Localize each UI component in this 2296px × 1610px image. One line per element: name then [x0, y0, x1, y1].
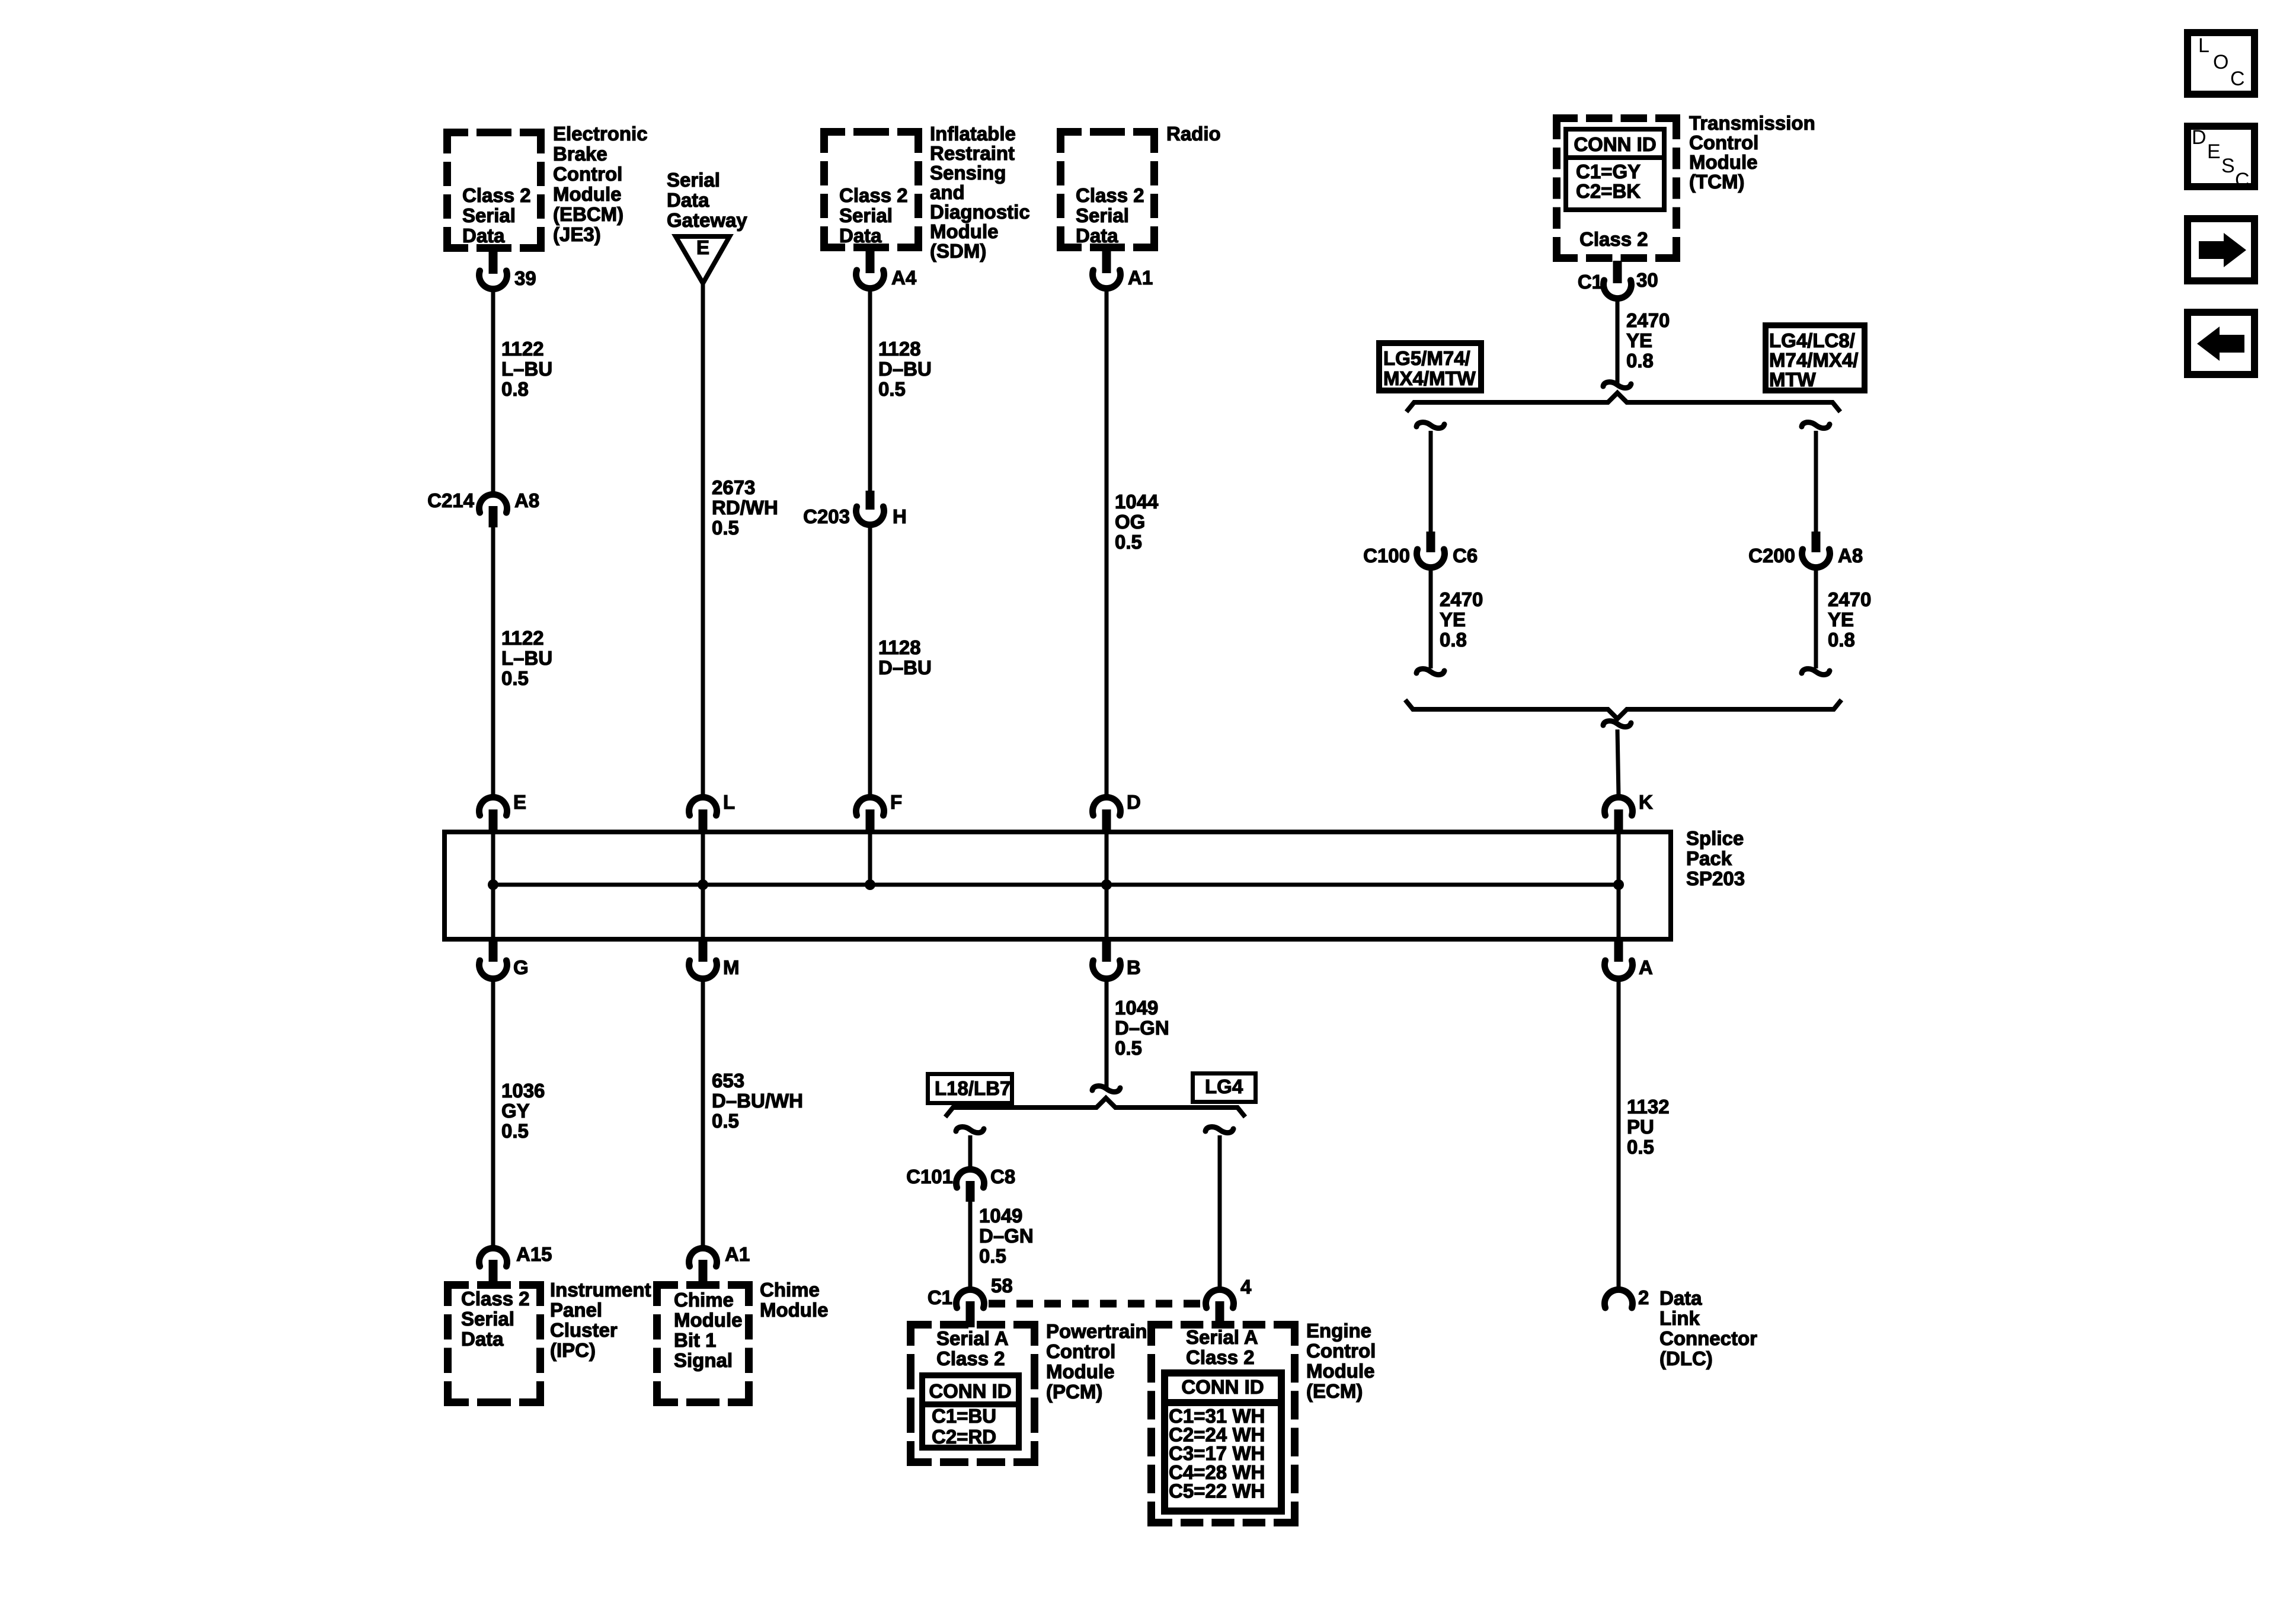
wire 2470 YE 0.8 from TCM C1 30 [1603, 299, 1631, 388]
svg-text:Serial: Serial [1076, 204, 1129, 226]
svg-text:C6: C6 [1453, 545, 1478, 566]
svg-text:RD/WH: RD/WH [712, 497, 778, 518]
svg-text:39: 39 [514, 267, 536, 289]
pin 2 of DLC [1604, 1286, 1649, 1308]
svg-text:Signal: Signal [674, 1349, 733, 1371]
svg-text:(ECM): (ECM) [1306, 1380, 1363, 1402]
svg-text:M74/MX4/: M74/MX4/ [1769, 349, 1858, 371]
svg-text:C1=GY: C1=GY [1576, 161, 1641, 183]
svg-text:Electronic: Electronic [553, 123, 648, 145]
splice connector B [1093, 885, 1141, 979]
label wire 1044 OG 0.5 [1115, 491, 1159, 553]
svg-text:0.5: 0.5 [878, 378, 906, 400]
svg-text:Module: Module [553, 183, 621, 205]
module Radio dashed box [1057, 128, 1158, 251]
svg-text:Class 2: Class 2 [936, 1347, 1005, 1369]
svg-text:0.5: 0.5 [1115, 1037, 1142, 1059]
splice connector K [1604, 791, 1653, 885]
option box LG4/LC8/M74/MX4/MTW [1766, 325, 1865, 391]
svg-text:0.5: 0.5 [1627, 1136, 1654, 1158]
svg-text:1049: 1049 [979, 1205, 1022, 1227]
svg-text:653: 653 [712, 1070, 744, 1092]
svg-text:0.5: 0.5 [1115, 531, 1142, 553]
svg-text:D–GN: D–GN [1115, 1017, 1169, 1039]
svg-text:Chime: Chime [674, 1289, 734, 1311]
label Chime Module [760, 1279, 828, 1321]
svg-text:YE: YE [1626, 329, 1652, 351]
svg-text:Class 2: Class 2 [1579, 228, 1648, 250]
svg-text:2: 2 [1638, 1286, 1649, 1308]
connector C203 pin H [803, 491, 907, 527]
svg-text:Cluster: Cluster [550, 1319, 618, 1341]
svg-text:1128: 1128 [878, 636, 921, 658]
svg-text:Class 2: Class 2 [461, 1288, 530, 1310]
svg-text:and: and [930, 181, 965, 203]
svg-text:L–BU: L–BU [501, 647, 552, 669]
label Engine Control Module (ECM) [1306, 1320, 1376, 1402]
label Electronic Brake Control Module (EBCM) (JE3) [553, 123, 648, 245]
wire 1049 D-GN to C101 [956, 1127, 984, 1170]
svg-text:C1=BU: C1=BU [932, 1405, 996, 1427]
svg-text:S: S [2221, 155, 2235, 177]
svg-text:Sensing: Sensing [930, 162, 1006, 184]
svg-text:Serial: Serial [461, 1308, 514, 1330]
svg-text:Serial A: Serial A [1186, 1326, 1258, 1348]
wire 1036 GY 0.5 from splice G to IPC [491, 980, 495, 1248]
svg-text:C: C [2235, 169, 2250, 191]
svg-text:A8: A8 [514, 489, 539, 511]
svg-text:C214: C214 [427, 489, 475, 511]
module ECM (Engine Control Module) dashed box [1147, 1321, 1299, 1526]
svg-text:Control: Control [1046, 1340, 1115, 1362]
label wire 1122 L-BU 0.8 [501, 338, 552, 400]
pin A1 of Radio [1093, 250, 1153, 289]
svg-text:Splice: Splice [1686, 827, 1744, 849]
svg-text:4: 4 [1240, 1276, 1252, 1298]
svg-text:Module: Module [1046, 1361, 1114, 1382]
svg-text:K: K [1639, 791, 1653, 813]
svg-text:OG: OG [1115, 511, 1145, 533]
svg-text:1122: 1122 [501, 338, 544, 360]
splice bus wire [493, 883, 1619, 887]
svg-text:0.5: 0.5 [712, 1110, 739, 1132]
svg-text:E: E [696, 236, 709, 258]
junction node D [1101, 879, 1112, 890]
splice connector F [856, 791, 903, 885]
connector C214 pin A8 [427, 489, 539, 527]
svg-text:C2=RD: C2=RD [932, 1426, 996, 1448]
svg-text:LG4: LG4 [1205, 1076, 1243, 1097]
svg-text:Link: Link [1659, 1307, 1700, 1329]
svg-text:LG4/LC8/: LG4/LC8/ [1769, 329, 1855, 351]
option box LG5/M74/MX4/MTW [1379, 343, 1481, 391]
svg-text:MX4/MTW: MX4/MTW [1383, 367, 1476, 389]
svg-text:CONN ID: CONN ID [929, 1380, 1011, 1402]
svg-text:A8: A8 [1838, 545, 1863, 566]
svg-text:Restraint: Restraint [930, 142, 1015, 164]
svg-text:(JE3): (JE3) [553, 223, 601, 245]
svg-text:Bit 1: Bit 1 [674, 1329, 717, 1351]
svg-text:Transmission: Transmission [1689, 112, 1815, 134]
label Splice Pack SP203 [1686, 827, 1745, 889]
svg-text:0.5: 0.5 [501, 1120, 529, 1142]
svg-text:C1: C1 [928, 1286, 952, 1308]
icon box arrow left [2188, 312, 2255, 375]
splice connector L [689, 791, 735, 885]
wire 653 D-BU/WH 0.5 from splice M to chime module [701, 980, 705, 1248]
module PCM (Powertrain Control Module) dashed box [907, 1321, 1038, 1466]
svg-text:Module: Module [930, 220, 998, 242]
svg-text:2470: 2470 [1440, 588, 1483, 610]
svg-text:(PCM): (PCM) [1046, 1381, 1102, 1403]
engine option brace bottom [1405, 700, 1841, 719]
ECM CONN ID table [1161, 1373, 1285, 1511]
pin A15 of IPC [479, 1243, 552, 1288]
label wire 1128 D-BU 0.5 [878, 338, 932, 400]
svg-text:CONN ID: CONN ID [1574, 133, 1656, 155]
wire 2470 YE 0.8 left branch to C100 [1416, 422, 1444, 533]
svg-text:Control: Control [553, 163, 622, 185]
module TCM (Transmission Control Module) dashed box [1553, 114, 1680, 262]
wire 1128 D-BU 0.5 from SDM pin A4 to C203 [868, 289, 872, 492]
svg-text:Pack: Pack [1686, 847, 1732, 869]
svg-text:Radio: Radio [1166, 123, 1221, 145]
label Instrument Panel Cluster (IPC) [550, 1279, 651, 1361]
svg-text:(EBCM): (EBCM) [553, 203, 623, 225]
svg-text:H: H [893, 505, 907, 527]
svg-text:0.5: 0.5 [712, 517, 739, 539]
label wire 2470 YE 0.8 left branch [1440, 588, 1483, 651]
svg-text:1049: 1049 [1115, 997, 1158, 1019]
svg-text:Data: Data [461, 1328, 504, 1350]
label Class 2 at TCM [1579, 228, 1648, 250]
svg-text:D–BU: D–BU [878, 358, 932, 380]
svg-text:Class 2: Class 2 [839, 184, 908, 206]
connector C100 pin C6 [1363, 532, 1478, 568]
splice pack SP203 box [445, 832, 1671, 939]
svg-text:MTW: MTW [1769, 369, 1817, 391]
svg-text:E: E [513, 791, 526, 813]
svg-text:Data: Data [839, 225, 882, 247]
splice connector E [479, 791, 527, 885]
module IPC (Instrument Panel Cluster) dashed box [444, 1281, 544, 1406]
svg-text:0.8: 0.8 [1440, 629, 1467, 651]
svg-text:1044: 1044 [1115, 491, 1159, 513]
label Radio [1166, 123, 1221, 145]
module SDM (Inflatable Restraint Sensing and Diagnostic Module) dashed box [820, 128, 922, 251]
svg-text:Inflatable: Inflatable [930, 123, 1016, 145]
svg-text:C101: C101 [906, 1166, 953, 1188]
label Serial Data Gateway [667, 169, 747, 231]
svg-text:PU: PU [1627, 1116, 1654, 1138]
svg-text:0.8: 0.8 [1626, 350, 1654, 372]
svg-text:Powertrain: Powertrain [1046, 1320, 1147, 1342]
svg-text:0.5: 0.5 [501, 667, 529, 689]
svg-text:2470: 2470 [1626, 309, 1670, 331]
svg-text:Gateway: Gateway [667, 209, 747, 231]
svg-text:Serial: Serial [462, 204, 516, 226]
junction node F [865, 879, 875, 890]
gateway triangle E [676, 236, 730, 283]
label Powertrain Control Module (PCM) [1046, 1320, 1147, 1403]
pin A1 of chime module [689, 1243, 750, 1288]
svg-text:E: E [2207, 140, 2221, 163]
svg-text:0.8: 0.8 [501, 378, 529, 400]
svg-text:Class 2: Class 2 [1076, 184, 1144, 206]
svg-text:C203: C203 [803, 505, 850, 527]
connector C1 58 of PCM [928, 1275, 1013, 1327]
svg-text:C8: C8 [990, 1166, 1015, 1188]
svg-text:Engine: Engine [1306, 1320, 1371, 1342]
splice connector G [479, 885, 529, 979]
svg-text:Instrument: Instrument [550, 1279, 651, 1301]
wire from LG4 brace to ECM pin 4 [1205, 1127, 1233, 1291]
svg-text:LG5/M74/: LG5/M74/ [1383, 347, 1470, 369]
svg-text:L–BU: L–BU [501, 358, 552, 380]
wire 1122 L-BU 0.8 from EBCM pin 39 to C214 [491, 289, 495, 495]
wire 1049 D-GN 0.5 from C101 to PCM C1 [968, 1202, 973, 1291]
svg-text:CONN ID: CONN ID [1181, 1376, 1264, 1398]
svg-text:C2=BK: C2=BK [1576, 180, 1641, 202]
option box L18/LB7 [928, 1074, 1012, 1103]
wire below C200 [1802, 568, 1830, 675]
label wire 1132 PU 0.5 [1627, 1096, 1670, 1158]
svg-text:D–BU/WH: D–BU/WH [712, 1090, 803, 1112]
TCM CONN ID table [1563, 129, 1667, 210]
svg-text:Chime: Chime [760, 1279, 820, 1301]
PCM CONN ID table [919, 1375, 1022, 1448]
svg-text:Module: Module [1689, 151, 1757, 173]
svg-text:Panel: Panel [550, 1299, 602, 1321]
svg-text:Brake: Brake [553, 143, 607, 165]
svg-text:SP203: SP203 [1686, 868, 1745, 889]
svg-text:0.5: 0.5 [979, 1245, 1006, 1267]
svg-text:Class 2: Class 2 [1186, 1346, 1255, 1368]
wire 1044 OG 0.5 from radio pin A1 to splice D [1105, 289, 1109, 796]
svg-text:(IPC): (IPC) [550, 1339, 596, 1361]
svg-text:D: D [1127, 791, 1141, 813]
svg-text:D: D [2192, 126, 2207, 149]
wire 2470 YE 0.8 right branch to C200 [1802, 422, 1830, 533]
svg-text:YE: YE [1828, 609, 1854, 630]
svg-text:O: O [2213, 51, 2228, 73]
label Data Link Connector (DLC) [1659, 1287, 1757, 1369]
svg-text:58: 58 [991, 1275, 1013, 1297]
label wire 1049 D-GN 0.5 [1115, 997, 1169, 1059]
svg-text:GY: GY [501, 1100, 530, 1122]
svg-text:Serial: Serial [667, 169, 720, 191]
splice connector D [1093, 791, 1141, 885]
svg-text:(DLC): (DLC) [1659, 1347, 1713, 1369]
svg-text:L18/LB7: L18/LB7 [935, 1077, 1011, 1099]
icon box LOC [2188, 33, 2255, 94]
svg-text:C100: C100 [1363, 545, 1410, 566]
wire 1128 D-BU from C203 to splice F [868, 525, 872, 796]
svg-text:A1: A1 [1128, 267, 1153, 289]
svg-text:1132: 1132 [1627, 1096, 1670, 1118]
icon box DESC [2188, 126, 2255, 191]
label wire 653 D-BU/WH 0.5 [712, 1070, 803, 1132]
svg-text:1036: 1036 [501, 1080, 545, 1102]
svg-text:1122: 1122 [501, 627, 544, 649]
svg-text:A: A [1639, 956, 1653, 978]
label wire 2470 YE 0.8 at TCM [1626, 309, 1670, 372]
svg-text:A15: A15 [516, 1243, 552, 1265]
svg-text:Module: Module [760, 1299, 828, 1321]
svg-text:C: C [2230, 68, 2245, 90]
svg-text:G: G [513, 956, 529, 978]
svg-text:D–BU: D–BU [878, 657, 932, 678]
icon box arrow right [2188, 219, 2255, 281]
svg-text:C200: C200 [1748, 545, 1795, 566]
svg-text:2470: 2470 [1828, 588, 1871, 610]
wire below C100 [1416, 568, 1444, 675]
label wire 1122 L-BU 0.5 [501, 627, 552, 689]
svg-text:(SDM): (SDM) [930, 240, 986, 262]
svg-text:1128: 1128 [878, 338, 921, 360]
svg-text:Data: Data [667, 189, 709, 211]
wire 1132 PU 0.5 from splice A to DLC [1617, 980, 1621, 1291]
svg-text:Data: Data [462, 225, 505, 247]
splice connector M [689, 885, 739, 979]
svg-text:L: L [723, 791, 735, 813]
svg-text:A4: A4 [891, 267, 917, 289]
label wire 1049 D-GN 0.5 lower [979, 1205, 1034, 1267]
junction node K [1613, 879, 1624, 890]
label wire 2470 YE 0.8 right branch [1828, 588, 1871, 651]
dashed wire C1 to ECM pin 4 [989, 1300, 1203, 1308]
module EBCM (Electronic Brake Control Module) dashed box [443, 129, 545, 252]
svg-text:Module: Module [1306, 1360, 1374, 1382]
svg-text:Serial: Serial [839, 204, 893, 226]
svg-text:2673: 2673 [712, 476, 755, 498]
svg-text:Control: Control [1306, 1340, 1376, 1362]
splice connector A [1604, 885, 1652, 979]
pcm option brace [945, 1098, 1245, 1117]
pin 39 of EBCM [479, 251, 536, 289]
svg-text:Control: Control [1689, 132, 1758, 153]
svg-text:M: M [723, 956, 740, 978]
svg-text:Diagnostic: Diagnostic [930, 201, 1030, 223]
svg-text:A1: A1 [725, 1243, 750, 1265]
option box LG4 [1193, 1074, 1256, 1102]
svg-text:30: 30 [1636, 269, 1658, 291]
svg-text:(TCM): (TCM) [1689, 171, 1744, 193]
label Inflatable Restraint Sensing and Diagnostic Module (SDM) [930, 123, 1030, 262]
wire 1049 D-GN 0.5 from splice B [1092, 980, 1120, 1092]
wire 1122 L-BU 0.5 from C214 to splice E [491, 527, 495, 796]
pin 4 of ECM [1206, 1276, 1252, 1327]
wire 2673 RD/WH 0.5 from gateway to splice L [701, 283, 705, 796]
svg-text:Module: Module [674, 1309, 742, 1331]
svg-text:Class 2: Class 2 [462, 184, 531, 206]
svg-text:Serial A: Serial A [936, 1327, 1009, 1349]
engine option brace top [1406, 393, 1840, 412]
junction node L [698, 879, 708, 890]
connector C101 pin C8 [906, 1166, 1015, 1202]
svg-text:D–GN: D–GN [979, 1225, 1034, 1247]
svg-text:YE: YE [1440, 609, 1466, 630]
pin A4 of SDM [856, 250, 917, 289]
svg-text:C5=22 WH: C5=22 WH [1169, 1480, 1265, 1502]
wire 2470 YE to splice K [1603, 721, 1631, 796]
label Transmission Control Module (TCM) [1689, 112, 1815, 193]
svg-text:Connector: Connector [1659, 1327, 1757, 1349]
svg-text:F: F [890, 791, 902, 813]
svg-text:C1: C1 [1578, 271, 1603, 293]
svg-text:B: B [1127, 956, 1141, 978]
svg-text:Data: Data [1659, 1287, 1702, 1309]
label wire 2673 RD/WH 0.5 [712, 476, 778, 539]
svg-text:L: L [2198, 34, 2209, 57]
svg-text:Data: Data [1076, 225, 1118, 247]
connector C200 pin A8 [1748, 532, 1863, 568]
junction node E [488, 879, 498, 890]
label wire 1128 D-BU [878, 636, 932, 678]
pin C1 30 of TCM [1578, 261, 1658, 299]
svg-text:0.8: 0.8 [1828, 629, 1855, 651]
module Chime dashed box [653, 1281, 753, 1406]
label wire 1036 GY 0.5 [501, 1080, 545, 1142]
